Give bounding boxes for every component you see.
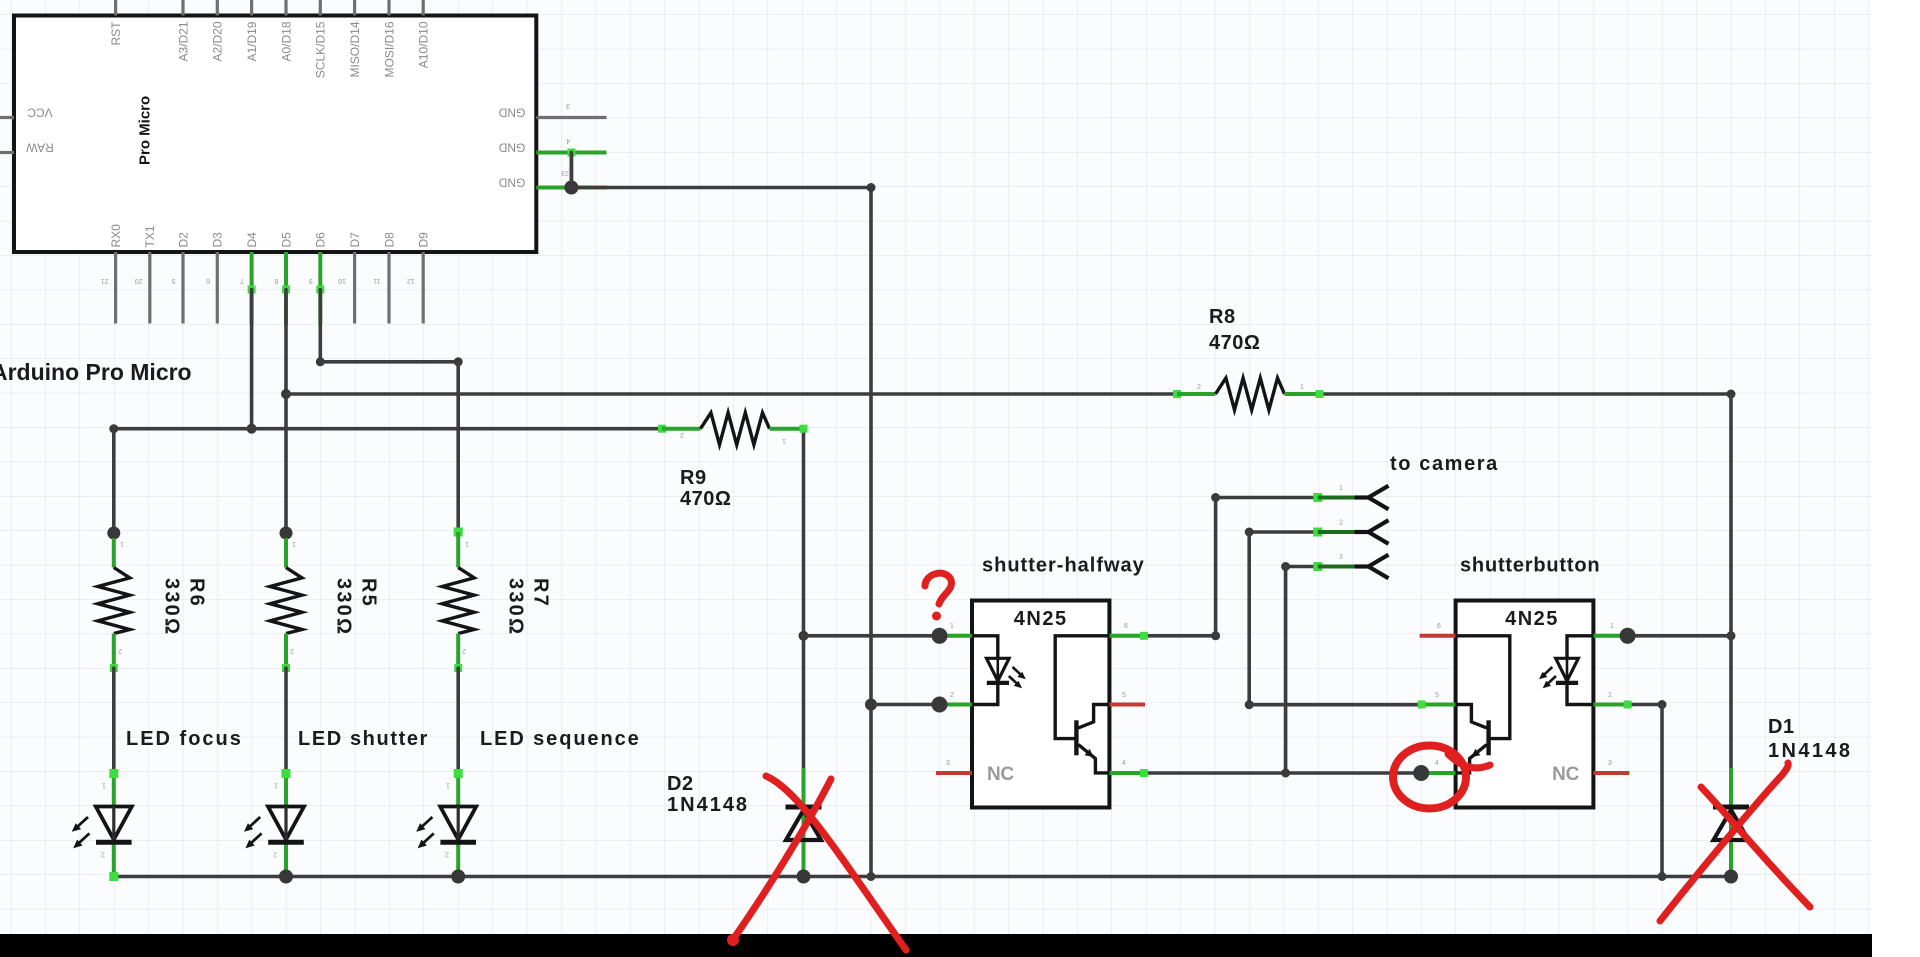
svg-text:5: 5 (1122, 692, 1126, 699)
svg-text:2: 2 (118, 647, 122, 654)
svg-text:Arduino Pro Micro: Arduino Pro Micro (0, 359, 192, 385)
svg-text:4: 4 (1435, 760, 1439, 767)
svg-text:2: 2 (273, 851, 277, 858)
svg-text:TX1: TX1 (143, 225, 157, 247)
node T-junction D5 (286,394) (281, 389, 291, 399)
wire D5 net horizontal to R8 (286, 392, 1177, 396)
svg-text:3: 3 (1608, 760, 1612, 767)
wire ground bus (114, 875, 1731, 879)
svg-text:4: 4 (1122, 760, 1126, 767)
wire R7 to LED3 (456, 668, 460, 772)
svg-text:1: 1 (1339, 485, 1343, 492)
pin GND 2 connected (498, 137, 606, 157)
node small at bus joint (1662,876.5) (1658, 872, 1667, 881)
svg-text:A1/D19: A1/D19 (245, 21, 259, 61)
node T-junction D4 (251.6,428.7) (247, 424, 257, 434)
wire opto2 pin2 down to ground bus (1660, 705, 1664, 877)
node corner (320.3,361.8) (316, 357, 325, 366)
svg-text:D4: D4 (245, 232, 259, 248)
svg-text:2: 2 (101, 851, 105, 858)
svg-text:RX0: RX0 (109, 224, 123, 248)
bottom pin D5 connected (275, 232, 294, 324)
internal LED (972, 636, 998, 659)
svg-text:RAW: RAW (26, 141, 54, 155)
bottom pin D3 (206, 232, 225, 324)
wire to opto1 pin 1 (804, 634, 940, 638)
wire R9 right lead down (802, 429, 806, 636)
LED1 (LED focus) (72, 769, 132, 877)
pin A0/D18 (279, 0, 293, 62)
node wire end at R6 pin1 (107, 527, 120, 540)
svg-text:R6: R6 (186, 578, 208, 608)
pin GND 3 connected (498, 169, 606, 195)
svg-text:1: 1 (782, 437, 786, 444)
wire GND branch to opto1 pin 2 (871, 703, 940, 707)
pin 6 base NC (1420, 634, 1456, 638)
annotation red question mark (925, 573, 951, 604)
white screenshot right strip (1872, 0, 1920, 957)
svg-text:MOSI/D16: MOSI/D16 (382, 21, 396, 77)
svg-text:RST: RST (109, 21, 123, 46)
pin A3/D21 (176, 0, 190, 62)
svg-text:A3/D21: A3/D21 (176, 21, 190, 61)
annotation red X over D2 (766, 776, 906, 950)
internal LED (1567, 636, 1593, 659)
pin SCLK/D15 (314, 0, 328, 78)
wire to opto2 pin5 (1249, 703, 1421, 707)
svg-text:1: 1 (1300, 384, 1304, 391)
svg-text:2: 2 (1608, 692, 1612, 699)
bottom pin RX0 (101, 224, 123, 324)
svg-text:D2: D2 (176, 232, 190, 248)
svg-text:5: 5 (1435, 692, 1439, 699)
wire camera pin3 to corner (1286, 565, 1318, 569)
pin 6 base (1109, 634, 1144, 638)
wire D4 net: down from chip pin D4 (250, 290, 254, 429)
camera pin 1 (1313, 493, 1322, 502)
svg-text:1: 1 (1610, 623, 1614, 630)
resistor R9 (658, 413, 808, 510)
svg-text:1: 1 (274, 782, 278, 789)
svg-text:GND: GND (498, 176, 525, 190)
pin GND 1 (498, 102, 606, 120)
svg-text:D2: D2 (667, 773, 694, 795)
svg-text:MISO/D14: MISO/D14 (348, 21, 362, 77)
wire GND net: GND3 pin to the right (571, 186, 871, 190)
bottom pin D7 (338, 232, 362, 324)
LED2 (LED shutter) (244, 769, 304, 877)
wire overlay on D5 pin (284, 290, 288, 325)
node corner (1249.2,532) (1245, 528, 1254, 537)
svg-text:4N25: 4N25 (1505, 608, 1559, 630)
wire overlay on D6 pin (318, 290, 322, 325)
wire down to diode D2 (802, 636, 806, 768)
svg-text:D8: D8 (382, 232, 396, 248)
annotation red circle around opto2 pin 4 (1393, 746, 1466, 809)
node corner (1215.6,497.5) (1211, 493, 1220, 502)
svg-text:4: 4 (566, 137, 570, 144)
svg-text:R9: R9 (680, 467, 707, 489)
node bus junction at D1 (1724, 870, 1738, 884)
resistor R5 (270, 538, 380, 672)
svg-text:6: 6 (206, 277, 210, 284)
pin 2 cathode (1593, 703, 1627, 707)
bottom pin D8 (373, 232, 396, 324)
svg-text:8: 8 (275, 277, 279, 284)
pin 4 emitter (1109, 771, 1144, 775)
wire overlay GND3 horizontal (571, 186, 606, 190)
svg-text:1: 1 (120, 540, 124, 547)
bottom pin D9 (407, 232, 431, 324)
wire camera pin3 vertical down (1284, 567, 1288, 774)
svg-text:VCC: VCC (27, 106, 53, 120)
svg-text:1: 1 (292, 540, 296, 547)
wire opto2 pin2 to corner (1628, 703, 1662, 707)
node T-junction (1285.6,773) (1281, 769, 1290, 778)
svg-text:GND: GND (498, 106, 525, 120)
svg-text:GND: GND (498, 141, 525, 155)
node corner (1285.6,566.5) (1281, 562, 1290, 571)
svg-text:1: 1 (102, 782, 106, 789)
node corner (1215.6,635.8) (1211, 631, 1220, 640)
camera pin 3 (1313, 562, 1322, 571)
svg-text:LED focus: LED focus (126, 728, 243, 750)
wire R8 right lead to corner (1320, 392, 1732, 396)
svg-text:2: 2 (680, 431, 684, 438)
svg-text:A2/D20: A2/D20 (211, 21, 225, 61)
svg-text:9: 9 (309, 277, 313, 284)
wire D4 net horizontal to R9 (114, 427, 662, 431)
svg-text:2: 2 (1339, 520, 1343, 527)
wire D5 net: down from chip pin D5 to R5 (284, 290, 288, 534)
internal transistor (1456, 636, 1510, 739)
bottom pin D6 connected (309, 232, 328, 324)
svg-text:10: 10 (338, 277, 346, 284)
svg-text:A10/D10: A10/D10 (417, 21, 431, 68)
svg-text:D6: D6 (314, 232, 328, 248)
svg-text:2: 2 (290, 647, 294, 654)
svg-text:1: 1 (446, 782, 450, 789)
wire D6 net horizontal (320, 360, 458, 364)
bottom pin D2 (172, 232, 191, 324)
svg-text:SCLK/D15: SCLK/D15 (314, 21, 328, 78)
wire camera pin2 vertical (1247, 532, 1251, 705)
svg-text:R5: R5 (358, 578, 380, 608)
node bend at (871,187.5) (867, 183, 876, 192)
svg-text:LED shutter: LED shutter (298, 728, 429, 750)
pin 2 cathode (940, 703, 973, 707)
node bus junction at LED3 (451, 870, 465, 884)
annotation red X over D1 (1660, 763, 1788, 921)
svg-text:shutterbutton: shutterbutton (1460, 555, 1600, 577)
svg-text:6: 6 (1437, 623, 1441, 630)
pin MISO/D14 (348, 0, 362, 78)
pin MOSI/D16 (382, 0, 396, 78)
svg-text:to camera: to camera (1390, 453, 1499, 475)
svg-text:2: 2 (1197, 384, 1201, 391)
wire camera pin2 to corner (1249, 530, 1318, 534)
optocoupler U3 shutterbutton 4N25 (1413, 601, 1635, 808)
bottom pin TX1 (135, 225, 157, 323)
pin 5 collector (1422, 703, 1456, 707)
svg-text:1N4148: 1N4148 (1768, 740, 1852, 762)
IC U1 Arduino Pro Micro body (14, 16, 536, 253)
svg-text:R8: R8 (1209, 306, 1236, 328)
wire emitter net opto1 pin4 to opto2 pin4 (1144, 771, 1421, 775)
node bus junction at D2 (797, 870, 811, 884)
green square at bus corner LED1 (109, 872, 118, 881)
pin 1 anode (1593, 634, 1627, 638)
node wire end at R5 pin1 (280, 527, 293, 540)
wire overlay GND2 vertical (570, 153, 574, 181)
pin RST (109, 0, 123, 45)
svg-text:20: 20 (135, 277, 143, 284)
svg-text:D7: D7 (348, 232, 362, 248)
svg-text:1N4148: 1N4148 (667, 794, 749, 816)
svg-text:shutter-halfway: shutter-halfway (982, 555, 1145, 577)
node corner (1731,394) (1727, 390, 1736, 399)
pin 5 collector (1109, 703, 1145, 707)
wire GND net: vertical down at x=871 (869, 188, 873, 877)
wire R6 to LED1 (112, 668, 116, 772)
svg-text:3: 3 (1339, 554, 1343, 561)
svg-text:7: 7 (240, 277, 244, 284)
svg-text:2: 2 (445, 851, 449, 858)
svg-text:330Ω: 330Ω (161, 578, 183, 636)
svg-text:12: 12 (407, 277, 415, 284)
wire opto2 pin1 to vertical (1628, 634, 1731, 638)
node corner (1662,704.5) (1658, 700, 1667, 709)
svg-text:NC: NC (1552, 764, 1579, 785)
pin VCC (0, 106, 53, 120)
pin A1/D19 (245, 0, 259, 62)
node corner (113.8,428.7) (109, 424, 118, 433)
svg-text:D9: D9 (417, 232, 431, 248)
wire down from R8 corner to opto2 pin1 row (1729, 394, 1733, 636)
pin A10/D10 (417, 0, 431, 68)
svg-text:330Ω: 330Ω (333, 578, 355, 636)
wire overlay on D4 pin (250, 290, 254, 325)
node bus junction at LED2 (279, 870, 293, 884)
LED3 (LED sequence) (416, 769, 476, 877)
resistor R8 (1173, 306, 1324, 410)
svg-text:1: 1 (465, 540, 469, 547)
node small at bus joint (871,876.5) (867, 872, 876, 881)
diode D2 (786, 768, 822, 877)
svg-text:3: 3 (946, 760, 950, 767)
pin RAW (0, 141, 54, 155)
svg-text:21: 21 (101, 277, 109, 284)
svg-text:R7: R7 (530, 578, 552, 608)
optocoupler U2 shutter-halfway 4N25 (932, 601, 1148, 808)
svg-text:D3: D3 (211, 232, 225, 248)
svg-text:4N25: 4N25 (1014, 608, 1068, 630)
svg-text:5: 5 (172, 277, 176, 284)
resistor R7 (442, 528, 551, 673)
svg-text:330Ω: 330Ω (505, 578, 527, 636)
svg-text:D5: D5 (279, 232, 293, 248)
svg-text:470Ω: 470Ω (680, 488, 731, 510)
camera pin 2 (1313, 528, 1322, 537)
resistor R6 (98, 538, 208, 672)
svg-text:A0/D18: A0/D18 (279, 21, 293, 61)
svg-text:D1: D1 (1768, 716, 1795, 738)
svg-text:NC: NC (987, 764, 1014, 785)
wire opto1 pin6 to corner (1144, 634, 1216, 638)
connector J1 to camera (1313, 485, 1388, 578)
pin 3 NC (936, 771, 972, 775)
node junction GND to opto1 pin2 (865, 699, 877, 711)
wire R5 to LED2 (284, 668, 288, 772)
diode D1 (1713, 768, 1749, 877)
svg-text:Pro Micro: Pro Micro (137, 96, 154, 165)
wire down to diode D1 (1729, 636, 1733, 768)
svg-text:2: 2 (950, 692, 954, 699)
svg-text:6: 6 (1124, 623, 1128, 630)
svg-text:LED sequence: LED sequence (480, 728, 641, 750)
svg-text:11: 11 (373, 277, 380, 284)
pin 4 emitter (1421, 771, 1455, 775)
svg-text:1: 1 (950, 623, 954, 630)
black screenshot bottom bar (0, 934, 1872, 957)
node bend (1731,635.8) (1727, 631, 1736, 640)
pin 1 anode (940, 634, 973, 638)
svg-text:470Ω: 470Ω (1209, 332, 1260, 354)
wire GND net: chip GND2 pin down to GND3 row (570, 153, 574, 188)
svg-text:2: 2 (462, 647, 466, 654)
wire up to camera pin1 row (1214, 498, 1218, 636)
pin A2/D20 (211, 0, 225, 62)
node corner (1249.2,704.7) (1245, 700, 1254, 709)
pin 3 NC (1593, 771, 1629, 775)
node corner (458.2,361.8) (454, 357, 463, 366)
svg-text:3: 3 (566, 102, 570, 109)
wire to camera pin1 (1216, 496, 1318, 500)
internal transistor (1055, 636, 1109, 739)
bottom pin D4 connected (240, 232, 259, 324)
wire D6 net down to R7 (456, 362, 460, 528)
svg-text:23: 23 (561, 169, 569, 176)
node bend (803.5,635.8) (799, 631, 809, 641)
wire D6 net: down from chip pin D6 (318, 290, 322, 362)
wire D4 net down to R6 (112, 429, 116, 533)
